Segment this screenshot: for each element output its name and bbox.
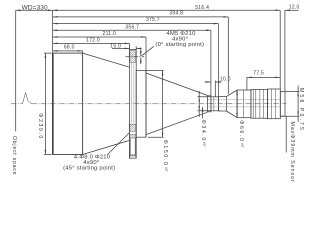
wire 10.0 extension	[214, 81, 216, 97]
wire dim D230 vertical	[44, 53, 46, 154]
svg-text:H7: H7	[240, 144, 244, 148]
svg-text:68.0: 68.0	[64, 44, 75, 50]
component bolt hole D8 bottom slot	[130, 138, 135, 155]
wire extension 394.8	[227, 17, 229, 94]
component flange hatch lower band	[130, 124, 136, 131]
wire knurl lines ring1	[253, 90, 263, 119]
component knurled ring 2	[267, 89, 280, 119]
wire extension 172.0	[128, 43, 130, 49]
node sensor plane line	[285, 117, 287, 153]
wire dim row1 516.4	[53, 9, 281, 11]
wire dim row3 375.7	[53, 23, 219, 25]
svg-text:Φ34.0: Φ34.0	[200, 120, 206, 142]
wire bore arrow	[202, 107, 204, 119]
wire flange inner lines	[132, 62, 134, 123]
svg-text:77.5: 77.5	[253, 71, 264, 77]
svg-text:211.0: 211.0	[103, 31, 117, 37]
wire waist inner step	[213, 97, 215, 111]
wire dim row4 356.7	[53, 29, 211, 31]
wire leader 4M5	[142, 46, 154, 56]
wire dim row2 394.8	[53, 16, 229, 18]
wire dim D66 vertical	[236, 90, 238, 118]
node axis break symbol	[23, 93, 32, 104]
svg-text:(45° starting point): (45° starting point)	[63, 166, 115, 172]
wire D150 extension lines	[146, 70, 163, 137]
wire dim 15.0 left arrow	[112, 47, 129, 49]
component M58 thread stub	[280, 91, 285, 116]
wire cone3 bottom	[226, 111, 237, 118]
wire cone2 bottom	[146, 112, 207, 134]
component M5 tapped hole hatch top	[130, 51, 136, 63]
wire dim 10.0 arrows	[205, 81, 211, 83]
wire dim row1 WD=330	[16, 9, 53, 11]
svg-text:Φ150.0: Φ150.0	[162, 140, 168, 167]
wire D230 extension ticks	[44, 53, 52, 154]
component rear barrel D66	[237, 90, 251, 118]
node bolt circle mark cross	[126, 56, 145, 58]
wire dim row5 211.0	[53, 36, 146, 38]
svg-text:12.0: 12.0	[289, 5, 300, 11]
wire dim D34 vertical	[198, 97, 200, 111]
wire inner bore lines	[207, 100, 280, 107]
svg-text:H7: H7	[202, 143, 206, 147]
component waist section D34	[211, 97, 219, 111]
component lens front barrel D230	[53, 53, 83, 154]
component mounting flange	[129, 49, 136, 158]
component rear small section	[219, 97, 227, 111]
svg-text:H7: H7	[164, 168, 168, 172]
wire dim 77.5	[247, 76, 280, 78]
wire cone3 top	[226, 90, 237, 97]
wire dim row6 172.0	[53, 42, 130, 44]
wire M58 extension lines	[281, 91, 299, 116]
svg-text:375.7: 375.7	[146, 17, 160, 23]
svg-text:Φ66.0: Φ66.0	[238, 120, 244, 142]
wire cone1 bottom	[83, 140, 130, 154]
wire bolt circle arrows	[140, 49, 142, 56]
wire leader 4-D8	[108, 132, 130, 154]
wire extension 375.7	[218, 24, 220, 97]
svg-text:MaxΦ39mm Sensor: MaxΦ39mm Sensor	[289, 122, 295, 183]
component ring section	[207, 96, 211, 112]
wire knurl lines ring2	[271, 89, 275, 119]
wire dim 15.0 right arrow	[136, 47, 141, 49]
svg-text:516.4: 516.4	[195, 5, 209, 11]
wire extension 356.7	[210, 30, 212, 96]
svg-text:(0° starting point): (0° starting point)	[155, 42, 204, 48]
svg-text:M58 P0.75: M58 P0.75	[298, 88, 304, 132]
component flange hatch bottom tip	[130, 155, 136, 158]
wire dim D150 vertical	[162, 70, 164, 137]
component tube D150	[136, 70, 146, 137]
node object-plane line	[15, 10, 17, 131]
svg-text:Φ230.0: Φ230.0	[37, 113, 43, 140]
wire barrel groove	[243, 90, 245, 118]
svg-text:Object space: Object space	[11, 136, 17, 175]
wire 77.5 left extension	[246, 77, 248, 90]
svg-text:15.0: 15.0	[110, 43, 121, 49]
svg-text:172.0: 172.0	[86, 37, 100, 43]
wire dim 68.0	[53, 50, 83, 52]
component knurled ring 1	[251, 90, 268, 119]
svg-text:394.8: 394.8	[169, 11, 183, 17]
wire centerline optical axis	[11, 103, 287, 105]
wire extension 211.0	[145, 37, 147, 70]
wire extension 15.0 pair	[129, 46, 136, 49]
wire extension 516.4 right	[279, 10, 281, 89]
svg-text:WD=330: WD=330	[22, 4, 48, 11]
node cone2 start face	[145, 70, 147, 137]
wire dim M58 vertical	[297, 91, 299, 116]
wire cone1 top	[83, 53, 130, 67]
wire D34 extension lines	[198, 97, 211, 111]
svg-text:10.0: 10.0	[220, 77, 231, 83]
wire extension 12.0 right	[284, 10, 286, 91]
wire extension line front face top	[52, 10, 54, 53]
svg-text:356.7: 356.7	[125, 24, 139, 30]
wire cone2 top	[146, 73, 207, 95]
wire extension 68.0 right	[82, 51, 84, 53]
wire dim 12.0 arrow	[285, 9, 299, 11]
